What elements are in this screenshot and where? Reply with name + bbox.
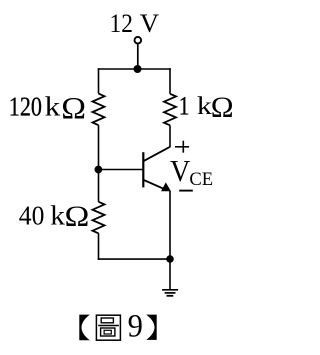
transistor Q1 base bar (142, 152, 144, 187)
node: top junction dot (134, 65, 142, 73)
svg-text:12: 12 (110, 10, 133, 38)
ground (162, 259, 178, 296)
svg-text:V: V (170, 155, 190, 188)
supply terminal (open circle) (135, 37, 142, 44)
svg-text:k: k (45, 93, 61, 123)
svg-text:Ω: Ω (211, 91, 234, 124)
resistor 40 kOhm (93, 202, 105, 234)
svg-text:9: 9 (128, 308, 143, 344)
caption right bracket (146, 315, 157, 340)
caption left bracket (79, 315, 90, 341)
svg-text:1: 1 (179, 91, 190, 121)
label 120 kOhm (9, 92, 86, 125)
wire: terminal stub (137, 44, 139, 69)
wire: left branch middle (98, 125, 100, 202)
resistor 1 kOhm (164, 94, 176, 126)
wire: emitter vertical (169, 191, 171, 259)
caption character Tu (figure) (96, 315, 120, 340)
svg-text:k: k (50, 201, 65, 231)
wire: top rail (98, 68, 171, 70)
transistor Q1 emitter arrowhead (162, 183, 171, 191)
svg-text:120: 120 (9, 93, 42, 123)
transistor Q1 emitter lead (144, 180, 166, 190)
label 12 V supply (110, 9, 160, 38)
wire: left branch lower (98, 233, 100, 260)
wire: bottom rail (98, 258, 170, 260)
svg-text:Ω: Ω (61, 92, 86, 125)
label plus sign (175, 141, 189, 153)
label 40 kOhm (19, 200, 90, 233)
resistor 120 kOhm (93, 94, 105, 126)
label V_CE (170, 155, 213, 190)
svg-text:40: 40 (19, 200, 45, 231)
node: base junction dot (95, 166, 103, 174)
svg-text:CE: CE (189, 169, 213, 190)
svg-text:Ω: Ω (64, 200, 89, 233)
wire: right branch upper (169, 68, 171, 94)
svg-text:V: V (140, 9, 159, 38)
node: ground junction dot (166, 255, 174, 263)
transistor Q1 collector lead (144, 147, 170, 161)
wire: collector vertical (169, 125, 171, 147)
wire: left branch upper (98, 68, 100, 93)
label 1 kOhm (179, 91, 234, 124)
wire: base wire (99, 169, 144, 171)
label minus sign (179, 190, 193, 192)
svg-text:k: k (197, 92, 212, 120)
